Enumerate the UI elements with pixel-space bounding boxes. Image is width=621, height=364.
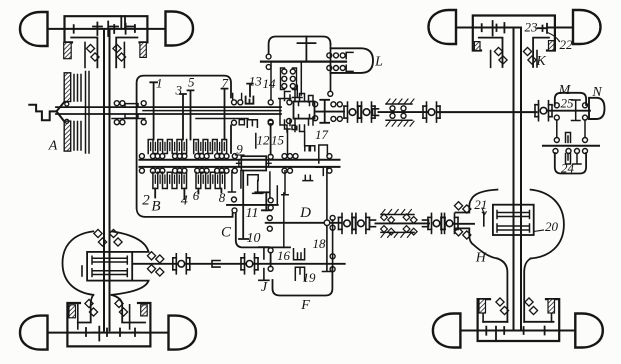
layshaft bearings upper row — [139, 154, 332, 159]
spline support rear bottom — [381, 231, 414, 233]
rollers before H — [454, 202, 471, 213]
hanger lines TR — [491, 51, 537, 68]
svg-text:10: 10 — [247, 231, 261, 246]
rollers at BL output — [147, 252, 164, 263]
rollers BR — [496, 298, 509, 315]
gear 10 — [239, 171, 248, 240]
double u-joint rear left — [339, 213, 356, 233]
svg-text:19: 19 — [303, 270, 317, 285]
gear 8 stem — [220, 189, 222, 193]
coupler rear — [370, 220, 376, 227]
svg-text:4: 4 — [181, 194, 188, 209]
spline support rear top — [381, 214, 414, 216]
transfer bottom gears — [285, 119, 314, 132]
wheel TR-right — [573, 10, 601, 44]
u-joint right — [535, 101, 552, 121]
coupler bottom — [212, 261, 220, 268]
PTO casing — [269, 37, 331, 54]
rollers TR — [494, 47, 507, 64]
gear 3 — [180, 94, 186, 140]
comb gears upper B — [194, 140, 227, 154]
svg-text:A: A — [48, 139, 58, 154]
right longitudinal shafts — [514, 29, 522, 331]
coupling L — [327, 53, 345, 71]
svg-text:K: K — [535, 54, 546, 69]
axle shaft BR — [460, 330, 575, 332]
svg-text:9: 9 — [236, 142, 243, 157]
spline support bottom — [386, 119, 412, 121]
u-joint rear right pair — [428, 213, 445, 233]
bevel left of box — [81, 266, 83, 276]
housing inner channel TR — [479, 38, 549, 67]
svg-text:5: 5 — [188, 75, 195, 90]
svg-text:H: H — [475, 251, 487, 266]
pump box 9 — [241, 156, 266, 170]
spline rollers rear — [381, 214, 395, 223]
svg-text:21: 21 — [474, 197, 487, 212]
transfer casing — [294, 102, 315, 119]
svg-text:20: 20 — [545, 219, 559, 234]
gear 18 vertical — [332, 220, 334, 267]
neck to bottom axle — [497, 259, 530, 322]
stems below layshaft — [228, 171, 288, 205]
svg-text:12: 12 — [257, 133, 271, 148]
svg-text:13: 13 — [249, 74, 263, 89]
bottom shaft — [133, 263, 345, 265]
reducer casing M — [555, 93, 586, 105]
winch drum L — [331, 48, 374, 73]
flywheel hatched bar lower — [64, 121, 71, 151]
layshaft bearings lower row — [139, 168, 332, 173]
hanger lines BL — [78, 305, 130, 329]
axle housing BL — [67, 303, 150, 346]
M lower stems — [557, 120, 585, 142]
shaft into M — [547, 110, 590, 112]
gear cluster 14 — [270, 62, 272, 100]
dog clutch on input — [125, 104, 138, 118]
bearing hatch block TL left — [64, 42, 71, 58]
comb inner A — [151, 143, 185, 151]
axle housing TR — [473, 16, 555, 51]
BL gear box — [87, 252, 132, 281]
svg-text:3: 3 — [175, 83, 183, 98]
flywheel cone — [57, 102, 65, 121]
pilot circles — [65, 102, 69, 106]
svg-text:1: 1 — [156, 76, 163, 91]
H gear bars — [497, 211, 530, 233]
coupler rear 2 — [423, 220, 429, 227]
shaft segment — [316, 111, 344, 113]
transfer bearings — [331, 102, 336, 107]
svg-text:24: 24 — [561, 161, 575, 176]
bevel gears TR — [482, 21, 509, 36]
idler gear 12-15 — [270, 124, 272, 155]
axle shaft TL — [48, 28, 166, 30]
H casing — [456, 190, 564, 259]
housing inner BR — [483, 321, 553, 323]
svg-text:L: L — [374, 55, 383, 70]
gear 5 — [188, 90, 194, 139]
axle shaft TR — [456, 27, 521, 29]
step bracket below layshaft end — [303, 167, 323, 180]
bearings on main shaft — [141, 101, 146, 106]
u-joint mid — [423, 102, 440, 122]
hatch block TR right — [549, 41, 555, 51]
housing inner channel TL — [71, 38, 137, 68]
svg-text:C: C — [221, 225, 232, 241]
spline support top — [386, 103, 412, 105]
hatch blocks BR — [479, 299, 486, 313]
reducer second shaft — [543, 145, 599, 147]
casing F — [273, 267, 333, 296]
u-joint BL output — [173, 254, 190, 274]
gear 15 stem — [287, 130, 289, 155]
spline rollers — [390, 106, 395, 111]
long shaft to right axle — [437, 111, 537, 113]
shaft to transfer — [293, 62, 303, 98]
BL casing — [63, 231, 149, 295]
comb gears lower D — [196, 172, 225, 188]
BL gear bars — [92, 256, 127, 276]
coupler — [373, 109, 379, 116]
bevel gears TL — [74, 22, 135, 37]
splined shaft — [379, 111, 431, 113]
main shaft inner line — [143, 110, 281, 112]
bevel gears BL axle — [86, 327, 139, 341]
winch shaft — [261, 60, 346, 62]
svg-text:25: 25 — [561, 96, 575, 111]
main shaft — [56, 107, 281, 114]
hanger lines TL — [85, 42, 124, 67]
rollers BL — [85, 299, 98, 316]
sleeve 19 upper — [294, 249, 305, 260]
svg-text:6: 6 — [193, 188, 200, 203]
svg-text:11: 11 — [246, 206, 259, 221]
shaft into H — [454, 223, 474, 225]
rollers TL — [86, 44, 99, 61]
leader 22 — [548, 33, 560, 42]
reverse shaft 11 — [227, 204, 278, 206]
comb inner C — [155, 175, 184, 183]
bevel unit J — [241, 254, 258, 274]
hatch block TR left — [474, 42, 480, 51]
casing 24 — [555, 153, 586, 174]
hanger lines BR — [483, 299, 551, 322]
step bracket above layshaft end — [305, 145, 328, 163]
transfer top gears — [285, 89, 314, 103]
gear 7 — [222, 89, 228, 140]
bearing hatch block TL right — [140, 42, 146, 57]
svg-text:B: B — [151, 199, 160, 215]
comb inner B — [196, 143, 224, 151]
gear 1 — [150, 82, 157, 139]
flywheel hatched bar upper — [64, 73, 71, 102]
axle housing BR — [478, 299, 560, 341]
crankshaft zigzag — [29, 105, 56, 121]
M gears — [554, 103, 559, 108]
wheel BR-right — [575, 314, 603, 348]
gear 13 sleeve — [246, 84, 254, 104]
svg-text:18: 18 — [313, 236, 327, 251]
axle housing TL — [65, 16, 148, 42]
sleeve 12 — [255, 134, 257, 149]
gear 17 lower vertical — [323, 168, 332, 272]
D shaft — [266, 222, 342, 224]
gear 11 — [255, 192, 271, 210]
input bevel in H — [483, 212, 485, 226]
svg-text:2: 2 — [142, 193, 150, 209]
axle shaft BL — [48, 332, 169, 334]
wheel TR-left — [429, 10, 457, 44]
H gear box — [493, 205, 534, 235]
neck to bottom axle BL — [91, 295, 123, 322]
wheel front-left-left — [20, 12, 48, 46]
gear 16 — [270, 253, 272, 266]
gear 2 stem — [154, 189, 156, 198]
splined shaft rear — [376, 222, 430, 224]
gear 23 — [538, 24, 548, 33]
svg-text:16: 16 — [277, 248, 291, 263]
svg-text:J: J — [261, 280, 268, 295]
left longitudinal shaft — [104, 29, 110, 331]
step bracket below 9 — [248, 175, 263, 194]
hatch blocks BL — [69, 305, 76, 318]
inner wall TL — [121, 16, 125, 29]
C casing — [232, 208, 237, 213]
wheel BR-left — [433, 314, 461, 348]
gearbox B casing — [137, 76, 233, 217]
svg-text:7: 7 — [222, 76, 229, 91]
svg-text:F: F — [300, 298, 310, 313]
node junction — [324, 220, 330, 226]
C box right edge — [283, 193, 285, 247]
sleeve 19 lower — [295, 267, 304, 280]
svg-text:14: 14 — [263, 76, 277, 91]
bearings at D shaft left end — [267, 216, 272, 221]
gear 6 stem — [197, 189, 199, 194]
clutch discs — [74, 72, 89, 154]
wheel BL-right — [169, 316, 197, 350]
wheel front-left-right — [166, 12, 194, 46]
svg-text:15: 15 — [271, 133, 285, 148]
double u-joint front — [344, 102, 361, 122]
rollers at neck — [94, 229, 107, 246]
gear bar 17 — [320, 100, 329, 123]
svg-text:17: 17 — [315, 127, 329, 142]
housing inner BL — [78, 322, 145, 324]
svg-text:N: N — [591, 85, 602, 100]
winch gear stem — [298, 37, 316, 62]
hub N — [589, 98, 605, 119]
comb inner D — [198, 175, 222, 183]
svg-text:D: D — [299, 205, 311, 221]
sleeve below shaft — [247, 120, 257, 128]
svg-text:8: 8 — [219, 190, 226, 205]
svg-text:22: 22 — [560, 37, 574, 52]
bevel gears BR — [486, 327, 549, 341]
comb gears upper A — [148, 140, 186, 154]
gear 4 stem — [183, 189, 185, 200]
wheel BL-left — [20, 316, 48, 350]
layshaft — [140, 160, 340, 167]
comb gears lower C — [153, 172, 187, 188]
second shaft gears — [553, 149, 588, 154]
svg-text:23: 23 — [525, 20, 539, 35]
